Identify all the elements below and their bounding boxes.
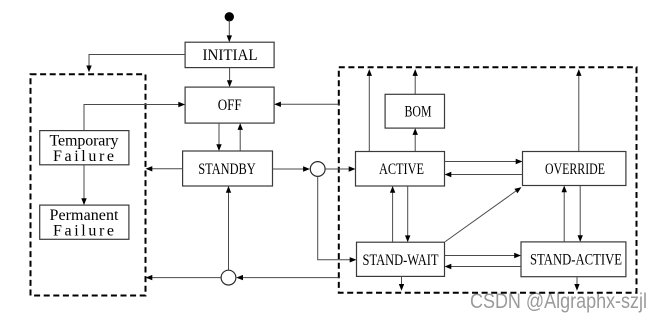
wire STANDBY to junction 1 xyxy=(273,166,310,171)
wire STAND-WAIT to STAND-ACTIVE xyxy=(445,253,522,258)
wire junction 1 to ACTIVE xyxy=(325,166,355,171)
wire run superstate to OFF xyxy=(274,102,339,107)
wire Temporary Failure to Permanent Failure xyxy=(81,165,86,205)
wire STAND-WAIT to OVERRIDE diagonal xyxy=(445,187,521,242)
wire STAND-WAIT to ACTIVE xyxy=(390,186,395,242)
wire ACTIVE to BOM xyxy=(413,128,418,151)
state STANDBY xyxy=(183,151,273,186)
junction 2 xyxy=(221,270,236,285)
wire ACTIVE to OVERRIDE xyxy=(445,159,523,164)
wire run superstate to junction 2 xyxy=(236,275,339,280)
wire STAND-ACTIVE to superstate bottom xyxy=(574,277,579,291)
svg-text:STAND-WAIT: STAND-WAIT xyxy=(363,252,439,269)
wire junction 2 to failure superstate xyxy=(146,275,222,280)
wire BOM to superstate top xyxy=(413,69,418,94)
wire OVERRIDE to superstate top xyxy=(576,69,581,151)
state Permanent Failure xyxy=(40,205,129,239)
wire STANDBY to OFF xyxy=(238,123,243,151)
wire OFF to STANDBY xyxy=(216,123,221,151)
svg-text:STAND-ACTIVE: STAND-ACTIVE xyxy=(530,251,622,268)
svg-text:INITIAL: INITIAL xyxy=(203,47,258,64)
svg-text:Temporary: Temporary xyxy=(50,132,119,149)
wire STAND-WAIT to superstate bottom xyxy=(399,276,404,290)
state INITIAL xyxy=(185,42,274,67)
state OVERRIDE xyxy=(523,152,626,186)
svg-text:OFF: OFF xyxy=(218,97,242,114)
wire STAND-ACTIVE to STAND-WAIT xyxy=(445,264,522,269)
wire INITIAL to failure superstate xyxy=(86,55,185,73)
wire STAND-ACTIVE to OVERRIDE xyxy=(562,186,567,243)
svg-text:Permanent: Permanent xyxy=(50,207,120,224)
state ACTIVE xyxy=(356,152,445,187)
svg-text:ACTIVE: ACTIVE xyxy=(379,161,424,178)
wire junction 2 to STANDBY xyxy=(226,186,231,270)
junction 1 xyxy=(310,162,325,177)
wire OVERRIDE to STAND-ACTIVE xyxy=(578,186,583,243)
state STAND-WAIT xyxy=(357,242,445,276)
wire junction 1 to STAND-WAIT xyxy=(318,177,357,263)
failure superstate dashed box xyxy=(31,74,146,295)
wire OVERRIDE to ACTIVE xyxy=(445,172,523,177)
wire Temporary Failure to OFF xyxy=(84,102,185,131)
wire INITIAL to OFF xyxy=(227,68,232,88)
svg-text:OVERRIDE: OVERRIDE xyxy=(545,161,605,178)
wire ACTIVE to superstate top xyxy=(367,69,372,151)
wire ACTIVE to STAND-WAIT xyxy=(405,186,410,242)
state OFF xyxy=(185,87,274,123)
state BOM xyxy=(385,94,444,128)
state STAND-ACTIVE xyxy=(521,242,626,277)
initial state dot xyxy=(225,13,233,21)
wire STANDBY to failure superstate xyxy=(146,166,183,171)
state Temporary Failure xyxy=(40,131,129,165)
run superstate dashed box xyxy=(339,67,637,292)
svg-text:BOM: BOM xyxy=(405,104,432,121)
wire initial dot to INITIAL xyxy=(227,21,232,43)
svg-text:STANDBY: STANDBY xyxy=(198,161,256,178)
